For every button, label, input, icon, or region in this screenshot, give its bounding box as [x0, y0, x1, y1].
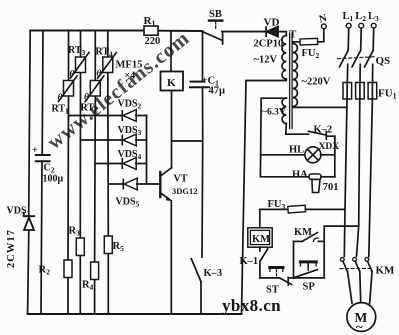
resistor R2: [39, 260, 73, 278]
wire top bus left: [30, 30, 144, 32]
terminal N: [318, 13, 328, 29]
winding 12V: [282, 36, 286, 80]
fuse FU2: [293, 29, 324, 60]
transistor VT 3DG12: [160, 168, 197, 201]
wire phase line 1 upper: [347, 28, 350, 50]
svg-text:701: 701: [323, 182, 339, 193]
wire phase line 1 mid: [346, 64, 348, 82]
vertical line F (RT4/R5 branch): [107, 31, 109, 58]
capacitor C1 47u: [190, 31, 225, 97]
wire 6.3V bottom to K-2: [286, 124, 309, 135]
svg-text:XDX: XDX: [319, 142, 340, 152]
svg-text:~: ~: [356, 319, 363, 334]
svg-text:2CW17: 2CW17: [6, 229, 17, 268]
pushbutton ST: [266, 268, 292, 296]
vertical line E (RT2/R4 branch): [94, 31, 96, 81]
resistor R1: [144, 15, 161, 47]
wire phase line 2 lower: [357, 99, 360, 256]
contactor coil KM: [248, 209, 272, 247]
vertical line C (RT1/R2 branch): [68, 31, 70, 81]
wire top bus mid (R1 to SB): [158, 30, 202, 32]
svg-text:VD: VD: [264, 16, 280, 28]
wire motor feeds: [348, 271, 353, 303]
svg-text:θ: θ: [97, 69, 102, 79]
svg-text:SB: SB: [209, 9, 222, 20]
svg-text:T: T: [289, 29, 297, 41]
wire 220V winding bottom to L1: [293, 106, 347, 109]
fuse FU3: [260, 199, 345, 213]
svg-text:K–1: K–1: [240, 256, 259, 267]
wire diode row 3: [95, 163, 122, 165]
winding 6.3V: [282, 98, 286, 124]
wire start row left: [260, 277, 280, 279]
contact K-2: [309, 125, 335, 155]
wire top bus right (SB to VD): [222, 31, 266, 33]
svg-text:3DG12: 3DG12: [172, 186, 198, 196]
svg-text:VT: VT: [174, 174, 188, 185]
resistor R4: [82, 262, 99, 292]
svg-text:HA: HA: [292, 170, 308, 181]
contact K-3: [191, 259, 222, 314]
zener VDS1 2CW17: [6, 206, 34, 269]
winding 220V: [293, 44, 298, 107]
svg-text:~220V: ~220V: [302, 77, 331, 88]
svg-text:θ: θ: [58, 93, 63, 103]
svg-text:~6.3V: ~6.3V: [262, 108, 286, 118]
wire bottom bus: [28, 313, 242, 315]
core: [289, 33, 291, 129]
svg-text:100µ: 100µ: [43, 174, 64, 185]
thermistor RT4: [96, 47, 117, 80]
wire 12V winding bottom to return rail: [242, 79, 287, 314]
wire phase line 2 upper: [360, 28, 363, 50]
svg-text:47µ: 47µ: [209, 86, 226, 97]
wire HL row right: [321, 154, 335, 156]
wire HA row left: [260, 176, 309, 177]
svg-text:K: K: [167, 77, 176, 89]
diode VDS4: [118, 149, 147, 169]
wire phase line 3 lower: [369, 99, 373, 256]
wire diode row 1: [69, 115, 123, 117]
vertical line D (RT3/R3 branch): [80, 31, 82, 58]
wire phase line 2 mid: [359, 64, 361, 82]
svg-text:2CP10: 2CP10: [254, 39, 284, 50]
vertical line B (C2 branch): [41, 31, 44, 154]
wire down to K-3: [201, 141, 204, 257]
svg-text:θ: θ: [70, 70, 75, 80]
wire collector to C1 line: [172, 140, 203, 142]
contact KM auxiliary: [294, 227, 325, 241]
capacitor C2 100u: [32, 145, 64, 185]
resistor R3: [69, 226, 85, 256]
svg-text:KM: KM: [252, 234, 270, 245]
thermistor RT3: [68, 45, 89, 80]
wire HL row left: [261, 154, 306, 156]
wire phase line 3 mid: [372, 64, 374, 82]
svg-text:HL: HL: [289, 145, 304, 156]
diode VDS5: [116, 178, 160, 208]
svg-text:K–3: K–3: [204, 268, 223, 279]
wire diode common vertical: [146, 116, 148, 185]
wire K coil to collector: [171, 91, 173, 168]
fuse FU1 (three): [343, 83, 397, 101]
wire emitter down: [170, 201, 172, 314]
wire SP left post up: [293, 241, 295, 278]
wire 6.3V top to alarm rail: [260, 98, 286, 176]
motor M: [347, 303, 376, 334]
wire alarm right vertical: [334, 136, 336, 177]
pressure switch SP: [294, 262, 325, 293]
svg-text:KM: KM: [376, 265, 396, 277]
wire diode row 2: [80, 139, 122, 141]
svg-text:SP: SP: [303, 282, 316, 293]
svg-text:K–2: K–2: [314, 125, 333, 136]
svg-text:ST: ST: [266, 285, 279, 296]
wire phase line 3 upper: [372, 28, 375, 50]
pushbutton SB: [202, 9, 223, 44]
diode VDS3: [118, 125, 147, 146]
wire C1 bottom: [202, 87, 204, 141]
svg-text:+: +: [32, 145, 38, 156]
svg-text:~12V: ~12V: [254, 55, 278, 66]
diode VD 2CP10: [254, 16, 284, 65]
buzzer HA 701: [292, 170, 339, 194]
wire VD to transformer: [278, 32, 286, 36]
contact K-1: [240, 247, 268, 278]
lamp HL XDX: [289, 142, 339, 163]
contactor KM main contacts: [340, 258, 395, 277]
resistor R5: [104, 236, 124, 254]
wire diode row 4: [108, 183, 123, 185]
wire HA row right: [321, 176, 335, 178]
vertical line A (left rail): [29, 31, 31, 217]
svg-text:QS: QS: [376, 55, 391, 67]
relay coil K: [161, 31, 184, 91]
terminal L1: [343, 11, 354, 28]
terminal L3: [368, 11, 379, 28]
switch QS: [338, 51, 391, 67]
thermistor RT1: [52, 76, 78, 116]
thermistor RT2: [81, 76, 104, 115]
svg-text:KM: KM: [294, 227, 312, 238]
svg-text:ybx8.cn: ybx8.cn: [222, 296, 281, 315]
transformer T: [262, 29, 331, 129]
wire ST to SP: [288, 277, 293, 279]
terminal L2: [355, 11, 366, 28]
wire phase line 1 lower: [344, 99, 347, 256]
wire SP right post up to L2: [324, 226, 359, 278]
diode VDS2: [118, 99, 147, 122]
